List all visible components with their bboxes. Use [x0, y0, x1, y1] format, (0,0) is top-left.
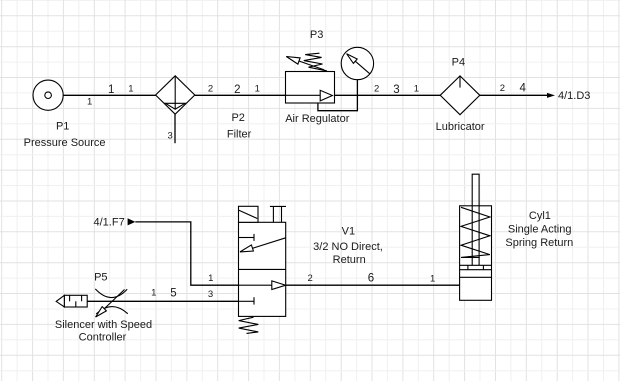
- svg-text:2: 2: [208, 83, 213, 94]
- svg-text:5: 5: [170, 288, 176, 300]
- svg-text:3: 3: [208, 289, 213, 300]
- svg-text:1: 1: [430, 273, 435, 284]
- svg-text:Lubricator: Lubricator: [436, 121, 485, 133]
- svg-text:2: 2: [308, 273, 313, 284]
- svg-text:2: 2: [374, 83, 379, 94]
- svg-text:4/1.D3: 4/1.D3: [558, 90, 590, 102]
- svg-text:P1: P1: [56, 121, 69, 133]
- svg-text:3/2 NO Direct,: 3/2 NO Direct,: [313, 241, 383, 253]
- svg-text:P4: P4: [452, 57, 465, 69]
- svg-text:Controller: Controller: [79, 332, 127, 344]
- svg-text:Silencer with Speed: Silencer with Speed: [55, 319, 152, 331]
- svg-text:3: 3: [393, 84, 399, 96]
- svg-text:1: 1: [87, 97, 92, 108]
- svg-text:2: 2: [500, 83, 505, 94]
- svg-text:4: 4: [519, 83, 526, 95]
- svg-text:1: 1: [151, 287, 156, 298]
- svg-text:Pressure Source: Pressure Source: [24, 137, 106, 149]
- svg-text:Single Acting: Single Acting: [508, 224, 572, 236]
- svg-text:4/1.F7: 4/1.F7: [94, 217, 125, 229]
- svg-text:P2: P2: [231, 112, 244, 124]
- svg-text:1: 1: [414, 83, 419, 94]
- svg-text:1: 1: [128, 83, 133, 94]
- svg-text:Filter: Filter: [227, 129, 252, 141]
- svg-text:Air Regulator: Air Regulator: [285, 113, 350, 125]
- svg-text:1: 1: [108, 84, 114, 96]
- svg-text:Return: Return: [333, 254, 366, 266]
- svg-text:3: 3: [167, 131, 172, 142]
- svg-text:P5: P5: [94, 272, 107, 284]
- svg-text:2: 2: [234, 84, 240, 96]
- svg-text:1: 1: [208, 273, 213, 284]
- svg-text:P3: P3: [310, 29, 323, 41]
- svg-text:V1: V1: [342, 226, 355, 238]
- svg-text:1: 1: [255, 83, 260, 94]
- svg-text:Spring Return: Spring Return: [505, 237, 573, 249]
- svg-text:Cyl1: Cyl1: [529, 210, 551, 222]
- svg-text:6: 6: [368, 272, 374, 284]
